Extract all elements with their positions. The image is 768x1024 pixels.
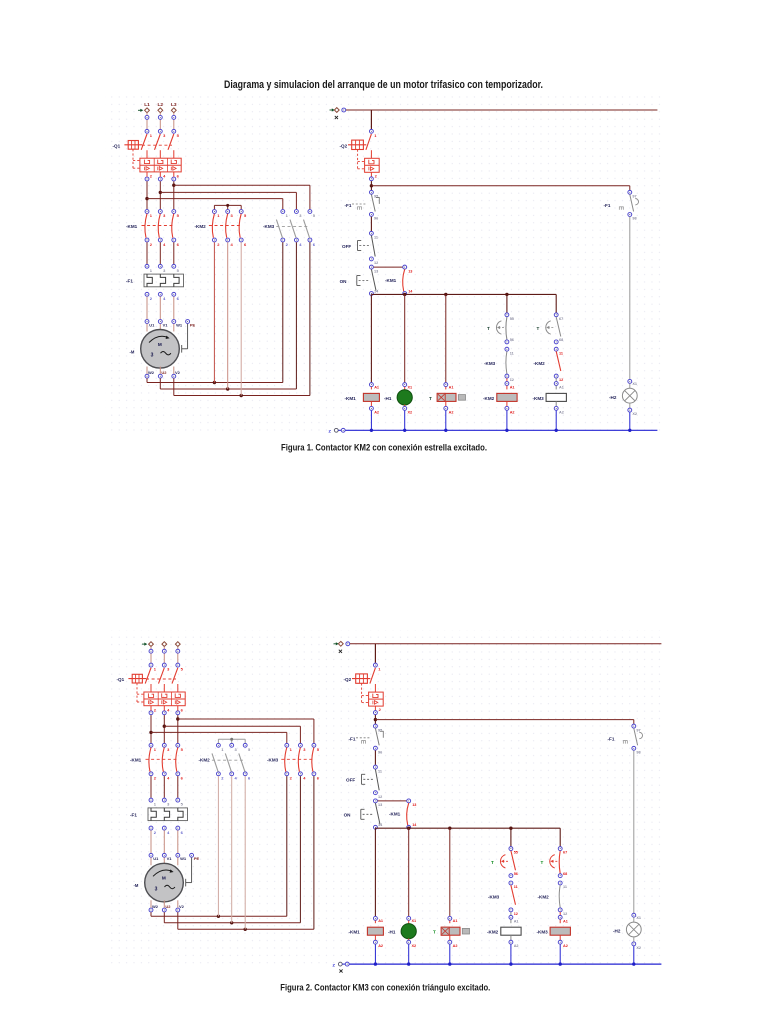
contactor -KM2 pole 3-4 (226, 210, 234, 247)
contactor -KM2 mechanical link (212, 759, 245, 761)
overload relay F1 output pins (149, 826, 184, 835)
junction bus H1 (403, 293, 406, 296)
wire neutral bus (350, 963, 662, 965)
contact F1 97-98 (619, 195, 638, 212)
motor M1 (145, 863, 184, 902)
node F2 96 (369, 212, 378, 220)
node KM3 A2 (558, 935, 568, 948)
node H2 X1 (628, 379, 637, 386)
contact F1 95-96 (356, 728, 383, 745)
svg-text:A1: A1 (514, 919, 519, 923)
node Q1 out 6 (176, 711, 180, 715)
contactor -KM3 pole 5-6 (312, 743, 320, 780)
wire Q2 to F2 junction (374, 715, 376, 726)
svg-text:98: 98 (632, 217, 636, 221)
contactor -KM3 mechanical link (276, 225, 309, 227)
svg-text:X1: X1 (412, 919, 417, 923)
svg-text:-Q2: -Q2 (344, 677, 352, 682)
wire H2 branch drop (633, 723, 635, 725)
svg-text:A1: A1 (378, 919, 383, 923)
svg-text:3: 3 (151, 353, 154, 359)
svg-text:-KM1: -KM1 (130, 758, 142, 763)
svg-text:12: 12 (563, 912, 567, 916)
wire motor stub 1 (146, 324, 148, 332)
terminal L2 (158, 108, 163, 113)
node H1 X2 (407, 938, 416, 948)
wire F1 to motor 2 (163, 830, 165, 853)
wire motor stub 1 (150, 858, 152, 866)
wire motor stub 2 (159, 324, 161, 332)
svg-text:-F1: -F1 (349, 737, 356, 742)
svg-text:T: T (429, 396, 432, 401)
wire KM2 pole 2 down (231, 776, 233, 923)
wire KM2 pole 3 down (244, 776, 246, 929)
svg-text:OFF: OFF (346, 778, 355, 783)
svg-text:T: T (537, 326, 540, 331)
node KM3 A2 (554, 401, 564, 414)
wire KM1 A2 to bus (374, 945, 376, 965)
node KM2 A2 (509, 935, 519, 948)
breaker Q2 pole (366, 134, 372, 158)
node KT A2 (448, 935, 458, 948)
svg-text:U1: U1 (149, 322, 155, 327)
wire bus to KM1 coil (370, 294, 372, 382)
svg-text:-Q1: -Q1 (117, 677, 125, 682)
pushbutton ON (357, 269, 376, 290)
svg-text:12: 12 (514, 912, 518, 916)
contactor -KM3 pole 1-2 (276, 210, 288, 247)
breaker Q1 poles (141, 134, 174, 158)
net labels L1 L2 L3 (144, 102, 177, 108)
wire bus to H1 (404, 294, 406, 382)
wire control top rail (346, 109, 657, 111)
contactor -KM2 pole 1-2 (212, 210, 220, 247)
overload relay F1 (148, 808, 188, 821)
svg-text:56: 56 (510, 338, 514, 342)
node T 56 (509, 872, 518, 878)
wire F1 to motor 1 (150, 830, 152, 853)
wire KM2 pole 3 down (240, 242, 242, 395)
wire KM1 pole 1 to F1 (146, 242, 148, 264)
node ON 14 (373, 823, 383, 829)
wire control bus (371, 293, 556, 295)
control supply terminal (334, 641, 350, 646)
svg-text:13: 13 (408, 269, 412, 273)
overload relay F1 input pins (149, 798, 184, 806)
contactor -KM1 pole 1-2 (149, 743, 157, 780)
svg-text:A2: A2 (453, 944, 458, 948)
junction L3 tap (176, 717, 179, 720)
timer contact T 55-56 (496, 317, 506, 340)
wire rail W2 (147, 242, 283, 382)
node F2 95 (369, 190, 378, 198)
breaker Q1 pole numbers 1 3 5 (154, 667, 184, 672)
neutral terminal Z (329, 428, 346, 433)
wire L3 feeder to KM3 (178, 719, 314, 743)
control supply X marker (339, 650, 342, 653)
contactor -KM2 pole 3-4 (225, 743, 237, 780)
junction L2 tap (159, 191, 162, 194)
svg-text:95: 95 (378, 728, 382, 732)
terminal L1 (149, 642, 154, 647)
svg-text:96: 96 (378, 750, 382, 754)
node KM2 A2 (505, 401, 515, 414)
breaker Q2 actuator (352, 674, 370, 703)
svg-text:-KM3: -KM3 (488, 895, 500, 900)
lamp H2 (626, 917, 641, 936)
wire motor bottom stub 2 (163, 900, 165, 907)
wire F1 to motor 1 (146, 297, 148, 320)
node Q2 out (369, 172, 373, 180)
node L1 pins (149, 649, 153, 667)
wire KM2 pole 2 down (227, 242, 229, 389)
node Q1 out 2 (149, 711, 153, 715)
wire motor stub 3 (173, 324, 175, 332)
svg-text:11: 11 (559, 351, 563, 355)
timer contact T 67-68 (546, 317, 561, 337)
svg-text:-KM1: -KM1 (349, 930, 361, 935)
svg-text:-KM1: -KM1 (126, 224, 138, 229)
contactor -KM1 pole 5-6 (172, 210, 180, 247)
wire 98 to lamp H2 (633, 751, 635, 913)
junction lamp branch (374, 718, 377, 721)
svg-text:13: 13 (374, 269, 378, 273)
breaker Q1 mechanical link (146, 678, 176, 680)
contactor -KM3 pole 3-4 (298, 743, 306, 780)
svg-text:67: 67 (563, 851, 567, 855)
wire KT A2 to bus (449, 945, 451, 965)
wire control bus (375, 827, 560, 829)
wire F1 to motor 3 (177, 830, 179, 853)
wire L2 drop (159, 113, 161, 129)
lamp H1 green (397, 387, 412, 405)
wire bus to KM1 coil (374, 828, 376, 916)
junction neutral bus (505, 429, 508, 432)
overload relay F1 output pins (145, 292, 180, 301)
wire motor bottom stub 1 (146, 367, 148, 374)
lamp H1 green (401, 921, 416, 939)
svg-text:-Q2: -Q2 (340, 143, 348, 148)
wire rail V2 (174, 242, 310, 395)
svg-text:11: 11 (510, 351, 514, 355)
junction rail W2 KM2 (217, 915, 220, 918)
star bridge above KM2 (218, 738, 245, 743)
contact F1 97-98 (623, 728, 642, 745)
coil KM1 (363, 387, 379, 402)
svg-text:-KM3: -KM3 (263, 224, 275, 229)
control supply X marker (335, 116, 338, 119)
wire 98 to lamp H2 (629, 217, 631, 379)
node L1 pins (145, 115, 149, 133)
svg-text:-H2: -H2 (613, 929, 621, 934)
supply arrow (138, 109, 143, 112)
wire bus corner to timer contact 67 (559, 828, 561, 846)
svg-text:A1: A1 (510, 386, 515, 390)
node KM2 NC 11 (554, 347, 563, 355)
svg-text:Diagrama y simulacion del arra: Diagrama y simulacion del arranque de un… (224, 79, 543, 91)
svg-text:68: 68 (563, 872, 567, 876)
node T 67 (554, 313, 563, 321)
node KM2 NC 12 (558, 908, 567, 916)
svg-text:Figura 2. Contactor KM3 con co: Figura 2. Contactor KM3 con conexión tri… (280, 983, 490, 993)
contactor -KM1 pole 3-4 (162, 743, 170, 780)
svg-text:W2: W2 (148, 370, 155, 375)
contact KM2 interlock 11-12 (559, 885, 560, 908)
wire phase 2 to KM1 (159, 172, 161, 209)
svg-text:U1: U1 (153, 856, 159, 861)
node L3 pins (176, 649, 180, 667)
svg-text:OFF: OFF (342, 244, 351, 249)
neutral terminal Z (333, 962, 350, 967)
lamp H2 (622, 384, 637, 404)
wire drop to Q2 (370, 110, 372, 129)
terminal L1 (145, 108, 150, 113)
contactor -KM3 pole 1-2 (285, 743, 293, 780)
svg-text:-KM3: -KM3 (537, 930, 549, 935)
node OFF 12 (373, 791, 382, 799)
contactor -KM2 mechanical link (209, 225, 242, 227)
contact F1 95-96 (352, 195, 379, 212)
svg-text:X2: X2 (636, 946, 641, 950)
svg-text:W1: W1 (180, 856, 187, 861)
svg-text:A2: A2 (563, 944, 568, 948)
junction bus H1 (407, 827, 410, 830)
junction neutral bus (444, 429, 447, 432)
contactor -KM1 mechanical link (142, 225, 175, 227)
node F1 97 (628, 190, 637, 198)
wire H2 branch drop (629, 189, 631, 191)
svg-text:V2: V2 (179, 904, 185, 909)
svg-text:T: T (433, 930, 436, 935)
breaker Q2 actuator (348, 140, 366, 169)
node ON 13 (369, 265, 378, 273)
junction neutral bus (632, 962, 635, 965)
node ON 14 (369, 289, 379, 295)
svg-text:X1: X1 (636, 916, 641, 920)
breaker Q2 trip unit (369, 692, 384, 712)
wire motor bottom stub 1 (150, 900, 152, 907)
node H1 X1 (403, 383, 412, 390)
svg-text:-KM2: -KM2 (538, 895, 550, 900)
wire neutral bus (346, 429, 658, 431)
svg-text:98: 98 (636, 750, 640, 754)
node KM2 A1 (509, 912, 519, 923)
junction bus KM2 branch (505, 293, 508, 296)
wire KM3 A2 to bus (559, 945, 561, 965)
svg-text:X1: X1 (408, 385, 413, 389)
node F2 95 (373, 724, 382, 732)
wire L1 feeder to KM3 (147, 199, 283, 210)
node L3 pins (172, 115, 176, 133)
svg-text:-KM1: -KM1 (385, 278, 397, 283)
svg-text:X1: X1 (632, 382, 637, 386)
svg-text:X2: X2 (408, 410, 413, 414)
contactor -KM1 pole 3-4 (158, 210, 166, 247)
timer contact T 55-56 (500, 851, 515, 871)
node F1 98 (628, 213, 637, 221)
svg-text:-H1: -H1 (384, 396, 392, 401)
svg-text:X2: X2 (632, 412, 637, 416)
contact KM1 aux 13-14 (407, 799, 418, 829)
junction rail V2 KM2 (240, 394, 243, 397)
svg-text:A1: A1 (563, 919, 568, 923)
svg-text:-M: -M (130, 349, 135, 354)
wire bus to timer contact 55 (510, 828, 512, 846)
contactor -KM3 mechanical link (281, 758, 315, 760)
node F2 96 (373, 746, 382, 754)
terminal L2 (162, 642, 167, 647)
neutral X marker (339, 969, 342, 972)
wire phase 3 to KM1 (173, 172, 175, 209)
wire H1 X2 to bus (408, 945, 410, 965)
svg-text:3: 3 (155, 886, 158, 892)
contactor -KM1 mechanical link (146, 758, 179, 760)
wire KM1 pole 3 to F1 (173, 242, 175, 264)
svg-text:L2: L2 (157, 102, 163, 108)
node KM3 NC 11 (505, 347, 514, 355)
svg-text:67: 67 (559, 317, 563, 321)
wire control top rail (350, 643, 661, 645)
svg-text:X2: X2 (412, 944, 417, 948)
node KM3 NC 12 (505, 374, 514, 382)
svg-text:M: M (162, 876, 166, 881)
node L2 pins (158, 115, 162, 133)
node Q1 out 2 (145, 177, 149, 181)
overload relay F1 (144, 274, 184, 287)
wire KM1 pole 1 to F1 (150, 776, 152, 798)
wire L3 drop (177, 647, 179, 663)
svg-text:-Q1: -Q1 (113, 143, 121, 148)
svg-text:-KM1: -KM1 (345, 396, 357, 401)
breaker Q1 pole numbers 1 3 5 (150, 133, 180, 138)
svg-text:A2: A2 (449, 410, 454, 414)
svg-text:96: 96 (374, 217, 378, 221)
junction rail U2 KM2 (230, 921, 233, 924)
wire bus to timer coil (445, 294, 447, 382)
svg-text:68: 68 (559, 338, 563, 342)
svg-text:A2: A2 (514, 944, 519, 948)
wire L1 drop (146, 113, 148, 129)
svg-text:T: T (491, 860, 494, 865)
node H1 X1 (407, 916, 416, 923)
svg-text:U2: U2 (161, 370, 167, 375)
svg-text:ON: ON (344, 813, 352, 818)
svg-text:A1: A1 (449, 385, 454, 389)
svg-text:12: 12 (374, 261, 378, 265)
node T 55 (505, 313, 514, 321)
svg-text:13: 13 (412, 803, 416, 807)
svg-text:-KM2: -KM2 (199, 758, 211, 763)
node KM2 NC 11 (558, 881, 567, 889)
wire KM2 A2 to bus (510, 945, 512, 965)
wire KM1 pole 2 to F1 (163, 776, 165, 798)
breaker Q2 trip unit (365, 158, 380, 178)
junction neutral bus (509, 962, 512, 965)
svg-text:A1: A1 (374, 385, 379, 389)
wire KM3 A2 to bus (555, 411, 557, 431)
svg-text:A2: A2 (378, 944, 383, 948)
wire F1 to motor 2 (159, 297, 161, 320)
wire motor bottom stub 2 (159, 367, 161, 374)
svg-text:A1: A1 (559, 386, 564, 390)
node Q2 in (373, 663, 381, 672)
wire rail U2 (164, 776, 300, 923)
breaker Q1 trip unit box (144, 692, 185, 706)
supply arrow (142, 643, 147, 646)
node Q2 in (369, 129, 377, 138)
node OFF 12 (369, 257, 378, 265)
star bridge above KM2 (214, 204, 241, 209)
svg-text:-KM2: -KM2 (483, 396, 495, 401)
node KM1 A2 (373, 935, 383, 948)
motor output pins W2 U2 V2 (149, 904, 185, 912)
node T 55 (509, 847, 518, 855)
wire motor stub 3 (177, 858, 179, 866)
wire KM2 A2 to bus (506, 411, 508, 431)
junction lamp branch (370, 184, 373, 187)
svg-text:T: T (487, 326, 490, 331)
coil KM3 (546, 386, 566, 402)
wire bus to timer coil (449, 828, 451, 916)
junction bus KT (448, 827, 451, 830)
node KM3 NC 11 (509, 881, 518, 889)
coil KM2 (501, 920, 521, 936)
node OFF 11 (373, 765, 382, 773)
breaker Q1 poles (145, 668, 178, 692)
junction neutral bus (403, 429, 406, 432)
contactor -KM2 pole 1-2 (212, 743, 224, 780)
svg-text:A2: A2 (559, 410, 564, 414)
node T 56 (505, 338, 514, 344)
node KM3 A1 (554, 378, 564, 389)
wire KM2 pole 1 down (213, 242, 215, 382)
wire 96 to OFF (370, 217, 372, 231)
junction neutral bus (407, 962, 410, 965)
svg-text:97: 97 (632, 195, 636, 199)
svg-text:-H2: -H2 (609, 395, 617, 400)
junction neutral bus (559, 962, 562, 965)
wire motor bottom stub 3 (173, 367, 175, 374)
contact KM1 aux 13-14 (403, 265, 414, 295)
svg-text:-KM2: -KM2 (195, 224, 207, 229)
svg-text:-KM2: -KM2 (487, 930, 499, 935)
pushbutton OFF (358, 236, 376, 257)
wire phase 1 to KM1 (146, 172, 148, 209)
svg-text:56: 56 (514, 872, 518, 876)
wire branch to H2 column (375, 720, 633, 724)
contactor -KM3 pole 5-6 (304, 210, 316, 247)
node T 67 (558, 847, 567, 855)
breaker Q1 actuator (124, 141, 142, 169)
node KT A2 (444, 401, 454, 414)
wire Q2 to F2 junction (370, 181, 372, 192)
svg-text:M: M (158, 342, 162, 347)
terminal L3 (171, 108, 176, 113)
node T 68 (558, 872, 567, 878)
svg-text:-F1: -F1 (604, 203, 611, 208)
svg-text:U2: U2 (165, 904, 171, 909)
wire bus to H1 (408, 828, 410, 916)
wire H2 X2 to bus (633, 946, 635, 964)
wire KM1 A2 to bus (370, 411, 372, 431)
svg-text:-KM3: -KM3 (267, 758, 279, 763)
breaker Q1 actuator (128, 674, 146, 702)
contact KM3 interlock 11-12 (506, 351, 507, 374)
breaker Q1 mechanical link (142, 144, 172, 146)
svg-text:PE: PE (194, 856, 200, 861)
node Q2 out (373, 706, 377, 714)
coil KM3 (550, 920, 570, 936)
